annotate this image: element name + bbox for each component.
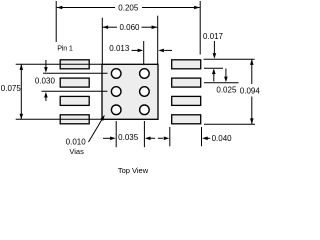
via row1 centerline bbox=[43, 72, 108, 74]
via C1 bbox=[111, 105, 121, 115]
dimension 0.017 arrow shaft bbox=[213, 41, 215, 53]
dimension 0.035 extension line col1 bbox=[115, 121, 117, 147]
dimension 0.075 line bbox=[20, 64, 22, 119]
dimension 0.205 arrow right bbox=[194, 6, 200, 10]
dimension 0.035 extension line col2 bbox=[143, 121, 145, 147]
svg-text:0.017: 0.017 bbox=[203, 32, 224, 41]
dimension 0.060 arrow left bbox=[103, 25, 109, 29]
pad2 center extension bbox=[204, 82, 239, 84]
dimension 0.030 lower arrow bbox=[45, 95, 47, 101]
dimension 0.030 upper arrow bbox=[45, 60, 47, 68]
dimension 0.060 arrow right bbox=[152, 25, 158, 29]
dimension 0.060 line bbox=[103, 26, 118, 28]
dimension 0.205 arrow left bbox=[57, 6, 63, 10]
dimension 0.040 arrow right-pointing bbox=[164, 137, 170, 141]
pad1 bottom edge extension bbox=[204, 67, 223, 69]
svg-text:Top View: Top View bbox=[118, 166, 149, 175]
dimension 0.094 arrow down bbox=[250, 118, 254, 124]
svg-text:0.060: 0.060 bbox=[119, 23, 140, 32]
svg-text:0.035: 0.035 bbox=[118, 133, 139, 142]
left pad 4 bbox=[60, 115, 89, 124]
right pad 4 bbox=[172, 115, 201, 124]
pad1 top edge extension bbox=[204, 58, 255, 60]
right pad 3 bbox=[172, 96, 201, 105]
left pad 2 bbox=[60, 78, 89, 87]
dimension 0.025 down arrow bbox=[225, 69, 227, 81]
svg-text:0.010: 0.010 bbox=[66, 138, 87, 147]
via A2 bbox=[140, 69, 150, 79]
leader line 0.010 vias bbox=[89, 120, 102, 142]
dimension 0.035 left tail bbox=[103, 137, 111, 139]
svg-text:0.013: 0.013 bbox=[109, 44, 130, 53]
via B1 bbox=[111, 87, 121, 97]
svg-text:0.205: 0.205 bbox=[118, 3, 139, 12]
svg-text:0.030: 0.030 bbox=[35, 77, 56, 86]
svg-text:Vias: Vias bbox=[69, 147, 84, 156]
dimension 0.060 extension line left bbox=[101, 18, 103, 64]
via A1 bbox=[111, 69, 121, 79]
via B2 bbox=[140, 87, 150, 97]
pin1 centerline to square bbox=[16, 63, 102, 65]
dimension 0.013 opposing arrow left-pointing bbox=[158, 49, 164, 53]
dimension 0.205 extension line right bbox=[199, 1, 201, 55]
dimension 0.205 extension line left bbox=[55, 1, 57, 42]
via C2 bbox=[140, 105, 150, 115]
leader arrowhead bbox=[100, 115, 105, 121]
right pad 1 bbox=[172, 60, 201, 69]
dimension 0.040 extension line left bbox=[169, 127, 171, 146]
dimension 0.035 arrow left-pointing bbox=[145, 137, 151, 141]
dimension 0.035 arrow right-pointing bbox=[110, 137, 116, 141]
via row2 centerline bbox=[42, 90, 108, 92]
dimension 0.040 arrow left-pointing bbox=[202, 137, 208, 141]
dimension 0.060 extension line right bbox=[157, 16, 159, 64]
via column2 top extension line bbox=[143, 41, 145, 64]
dimension 0.013 arrow right-pointing bbox=[138, 49, 144, 53]
pad4 bottom edge extension bbox=[204, 123, 255, 125]
dimension 0.040 extension line right bbox=[201, 127, 203, 146]
pad4 centerline to square bbox=[16, 118, 102, 120]
dimension 0.094 line lower bbox=[251, 97, 253, 125]
dimension 0.025 up arrow bbox=[213, 70, 215, 82]
dimension 0.094 line upper bbox=[251, 59, 253, 84]
svg-text:0.075: 0.075 bbox=[1, 84, 22, 93]
dimension 0.094 arrow up bbox=[250, 59, 254, 65]
svg-text:0.025: 0.025 bbox=[216, 86, 237, 95]
svg-text:0.040: 0.040 bbox=[212, 134, 233, 143]
dimension 0.205 line bbox=[57, 7, 115, 9]
center pad square bbox=[102, 64, 158, 119]
dimension 0.035 right dashes bbox=[150, 137, 163, 139]
left pad 1 (pin 1) bbox=[60, 60, 89, 69]
left pad 3 bbox=[60, 96, 89, 105]
dimension 0.013 opposing arrow dash tail bbox=[164, 49, 172, 51]
dimension 0.075 arrow down bbox=[20, 114, 24, 120]
dimension 0.075 arrow up bbox=[20, 64, 24, 70]
dimension 0.017 arrowhead down bbox=[213, 53, 217, 59]
svg-text:0.094: 0.094 bbox=[240, 87, 261, 96]
svg-text:Pin 1: Pin 1 bbox=[57, 44, 73, 53]
right pad 2 bbox=[172, 78, 201, 87]
dimension 0.013 leader tail bbox=[132, 49, 139, 51]
